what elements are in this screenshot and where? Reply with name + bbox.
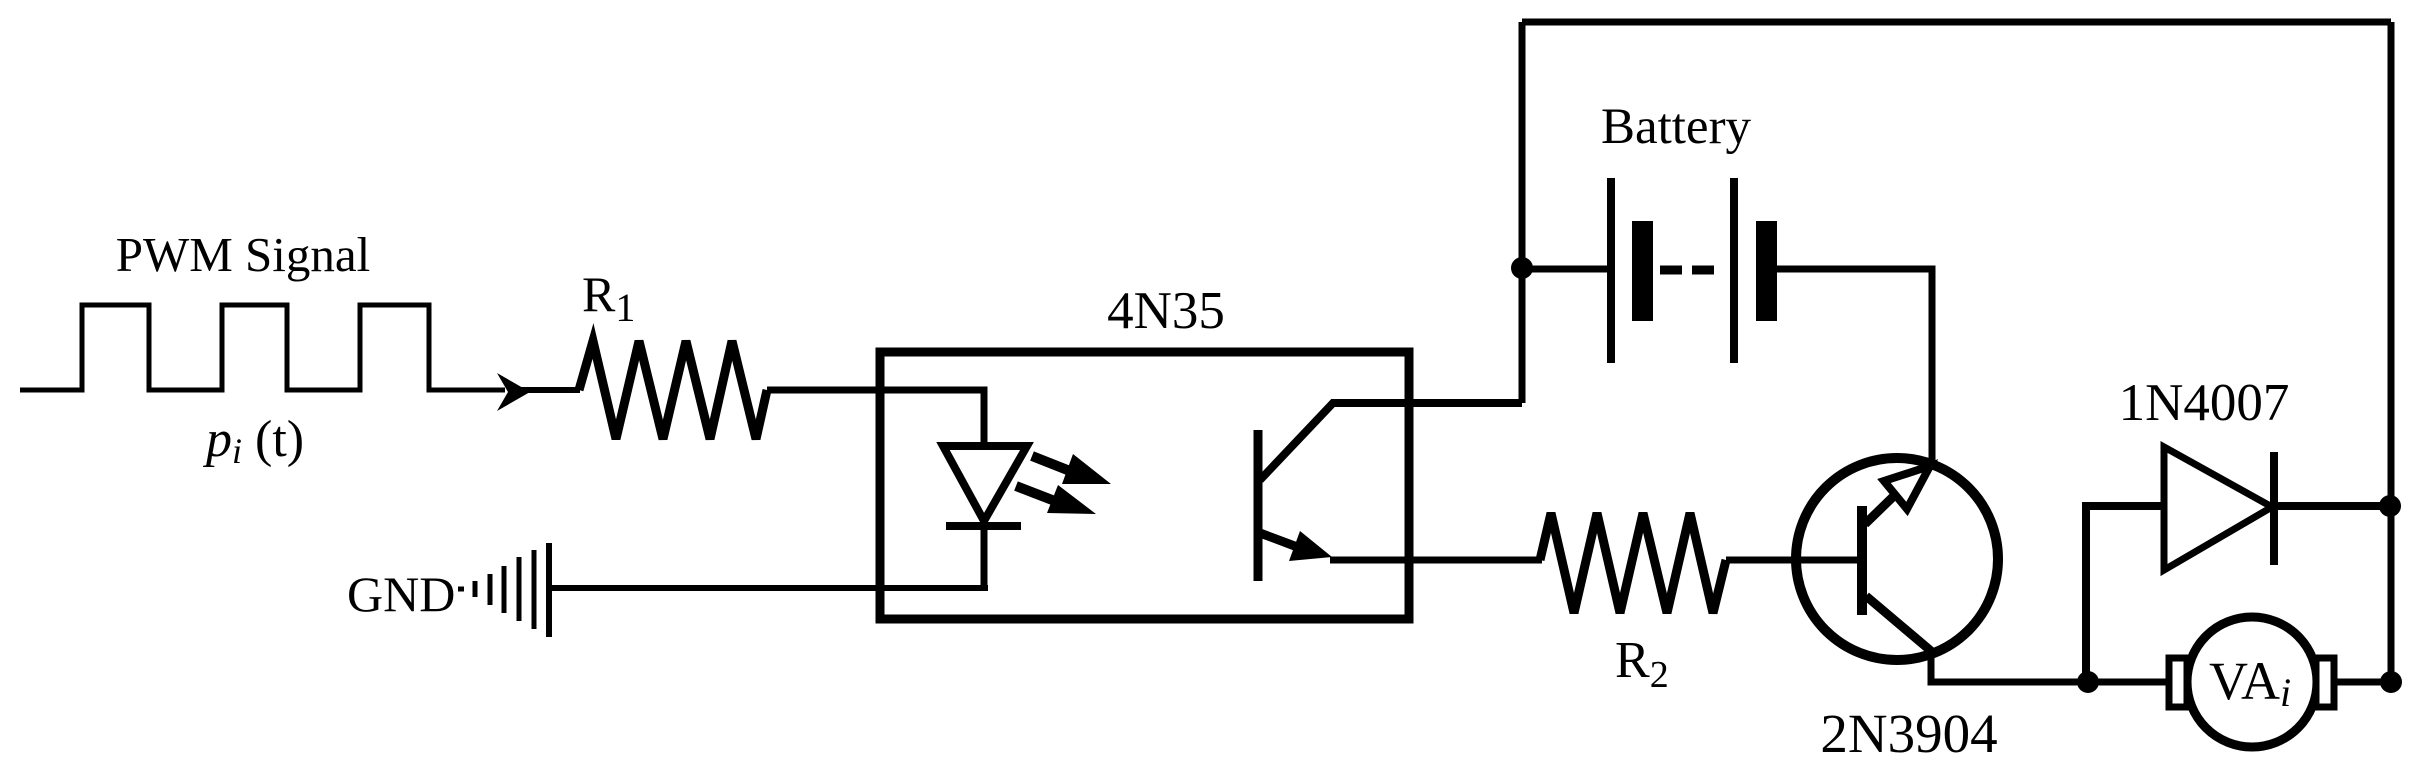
wire emitter to R2: [1330, 557, 1542, 564]
phototransistor base bar: [1254, 430, 1263, 581]
LED light arrow lower: [1016, 485, 1096, 514]
LED light arrow upper: [1032, 454, 1111, 484]
battery B1 cell 2 long plate: [1730, 178, 1738, 363]
wire battery to transistor collector: [1777, 269, 1932, 462]
battery dashes: [1660, 266, 1714, 275]
wire ground to LED cathode: [549, 585, 988, 591]
battery B1 cell 2 short plate: [1756, 221, 1777, 321]
resistor R2: [1540, 513, 1726, 613]
phototransistor emitter with arrowhead: [1260, 531, 1332, 561]
battery B1 cell 1 long plate: [1607, 178, 1615, 363]
transistor Q1 collector diagonal with arrowhead: [1865, 466, 1930, 524]
wire node to battery: [1522, 266, 1611, 273]
label 1N4007: [2119, 374, 2290, 432]
optocoupler U1 4N35 box: [880, 352, 1409, 619]
svg-text:GND: GND: [347, 566, 455, 622]
wire R1 to LED anode: [767, 390, 984, 446]
arrowhead on PWM output wire: [497, 373, 530, 411]
label Battery: [1601, 99, 1752, 155]
transistor Q1 base bar: [1857, 506, 1867, 615]
PWM square-wave source: [20, 305, 505, 390]
junction node diode anode: [2077, 671, 2099, 693]
wire meter to right rail: [2334, 679, 2391, 686]
transistor Q1 circle: [1796, 458, 1998, 660]
label R1: [582, 266, 635, 330]
LED D1 cathode bar: [946, 522, 1021, 530]
svg-text:4N35: 4N35: [1107, 282, 1225, 340]
label VA_i: [2209, 651, 2291, 715]
wire diode anode up: [2086, 506, 2164, 682]
junction node diode cathode: [2379, 495, 2401, 517]
transistor Q1 emitter diagonal: [1866, 596, 1931, 651]
wire LED cathode down: [981, 526, 988, 588]
diode D2 cathode bar: [2270, 452, 2278, 565]
svg-text:PWM Signal: PWM Signal: [116, 227, 371, 282]
label GND: [347, 566, 455, 622]
svg-text:pi (t): pi (t): [202, 411, 304, 471]
phototransistor collector and wire to node: [1260, 403, 1522, 480]
meter M1 right terminal: [2316, 658, 2334, 707]
junction node meter right: [2380, 671, 2402, 693]
LED D1 triangle: [943, 446, 1027, 521]
label R2: [1615, 632, 1669, 696]
svg-text:2N3904: 2N3904: [1820, 703, 1997, 764]
wire emitter down and right: [1931, 651, 2190, 682]
wire node up from collector: [1519, 22, 1526, 403]
wire arrow to R1: [508, 387, 580, 393]
diode D2 1N4007 triangle: [2164, 447, 2272, 570]
meter M1 VA circle: [2187, 617, 2317, 747]
right supply wire: [2388, 22, 2395, 683]
meter M1 left terminal: [2169, 658, 2187, 707]
junction node battery left: [1511, 257, 1533, 279]
wire R2 to base: [1726, 557, 1862, 564]
svg-text:Battery: Battery: [1601, 99, 1752, 155]
wire diode cathode to right rail: [2274, 502, 2391, 510]
label 2N3904: [1820, 703, 1997, 764]
resistor R1: [579, 341, 767, 439]
label p_i(t): [202, 411, 304, 471]
svg-text:1N4007: 1N4007: [2119, 374, 2290, 432]
top supply wire: [1522, 19, 2391, 26]
label 4N35: [1107, 282, 1225, 340]
svg-text:VAi: VAi: [2209, 651, 2291, 715]
ground symbol GND: [458, 543, 549, 637]
battery B1 cell 1 short plate: [1632, 221, 1653, 321]
label PWM Signal: [116, 227, 371, 282]
